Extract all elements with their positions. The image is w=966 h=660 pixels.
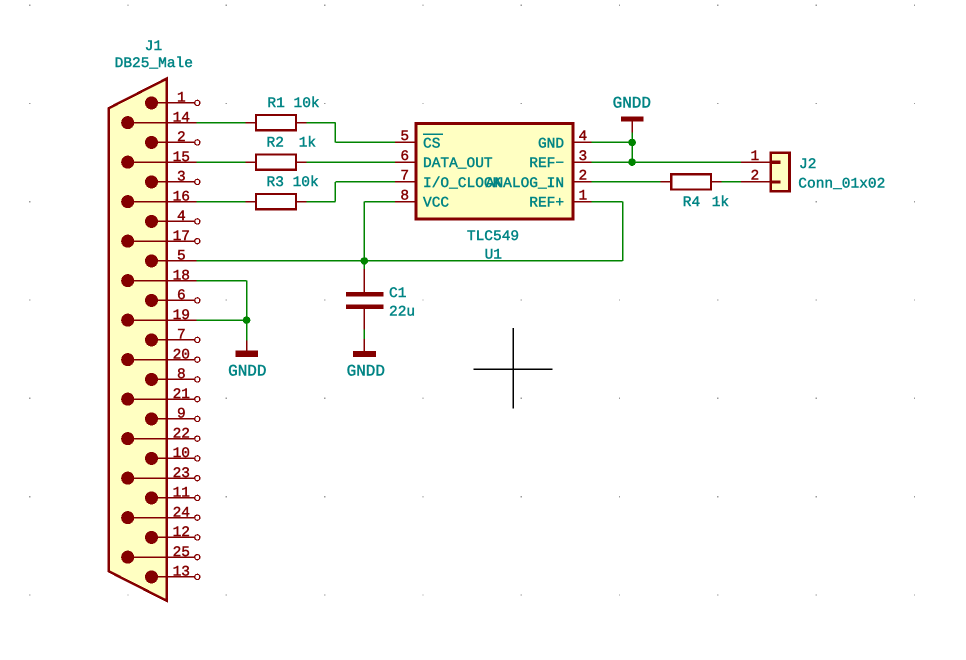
svg-text:5: 5 — [400, 129, 409, 145]
svg-text:2: 2 — [750, 169, 759, 185]
svg-text:5: 5 — [177, 249, 186, 265]
svg-text:11: 11 — [173, 486, 190, 502]
svg-text:20: 20 — [173, 347, 190, 363]
svg-text:9: 9 — [177, 407, 186, 423]
svg-text:21: 21 — [173, 387, 190, 403]
svg-text:R3 10k: R3 10k — [267, 175, 319, 191]
svg-text:REF−: REF− — [529, 156, 564, 172]
svg-text:13: 13 — [173, 565, 190, 581]
svg-text:2: 2 — [177, 130, 186, 146]
svg-text:15: 15 — [173, 150, 190, 166]
svg-text:1: 1 — [750, 149, 759, 165]
svg-text:DATA_OUT: DATA_OUT — [423, 156, 493, 172]
svg-text:2: 2 — [578, 169, 587, 185]
svg-text:25: 25 — [173, 545, 190, 561]
svg-text:R1 10k: R1 10k — [267, 96, 319, 112]
svg-text:7: 7 — [177, 328, 186, 344]
svg-text:24: 24 — [173, 505, 190, 521]
svg-text:U1: U1 — [485, 248, 502, 264]
svg-text:1: 1 — [177, 91, 186, 107]
svg-text:3: 3 — [578, 149, 587, 165]
svg-text:4: 4 — [177, 209, 186, 225]
svg-text:C1: C1 — [389, 286, 406, 302]
svg-text:22u: 22u — [389, 304, 415, 320]
svg-text:GNDD: GNDD — [228, 363, 266, 381]
svg-text:REF+: REF+ — [529, 196, 564, 212]
svg-text:23: 23 — [173, 466, 190, 482]
svg-text:22: 22 — [173, 426, 190, 442]
svg-text:7: 7 — [400, 169, 409, 185]
svg-text:J2: J2 — [799, 157, 816, 173]
svg-text:6: 6 — [400, 149, 409, 165]
svg-text:10: 10 — [173, 446, 190, 462]
svg-text:TLC549: TLC549 — [467, 229, 519, 245]
svg-text:Conn_01x02: Conn_01x02 — [798, 176, 885, 192]
svg-text:8: 8 — [400, 188, 409, 204]
svg-text:R2: R2 — [267, 135, 284, 151]
svg-text:J1: J1 — [145, 39, 162, 55]
svg-text:16: 16 — [173, 189, 190, 205]
svg-text:3: 3 — [177, 170, 186, 186]
svg-text:1: 1 — [578, 188, 587, 204]
svg-text:VCC: VCC — [423, 196, 449, 212]
svg-text:1k: 1k — [299, 135, 316, 151]
svg-text:14: 14 — [173, 110, 190, 126]
svg-text:12: 12 — [173, 525, 190, 541]
svg-text:1k: 1k — [712, 195, 729, 211]
svg-text:4: 4 — [578, 129, 587, 145]
svg-text:R4: R4 — [683, 195, 700, 211]
svg-text:GND: GND — [538, 136, 564, 152]
svg-text:17: 17 — [173, 229, 190, 245]
svg-text:CS: CS — [423, 136, 440, 152]
svg-text:GNDD: GNDD — [613, 94, 651, 112]
svg-text:8: 8 — [177, 367, 186, 383]
svg-text:6: 6 — [177, 288, 186, 304]
svg-text:DB25_Male: DB25_Male — [115, 56, 193, 72]
svg-text:GNDD: GNDD — [347, 363, 385, 381]
svg-text:18: 18 — [173, 268, 190, 284]
svg-text:ANALOG_IN: ANALOG_IN — [486, 176, 564, 192]
svg-text:19: 19 — [173, 308, 190, 324]
